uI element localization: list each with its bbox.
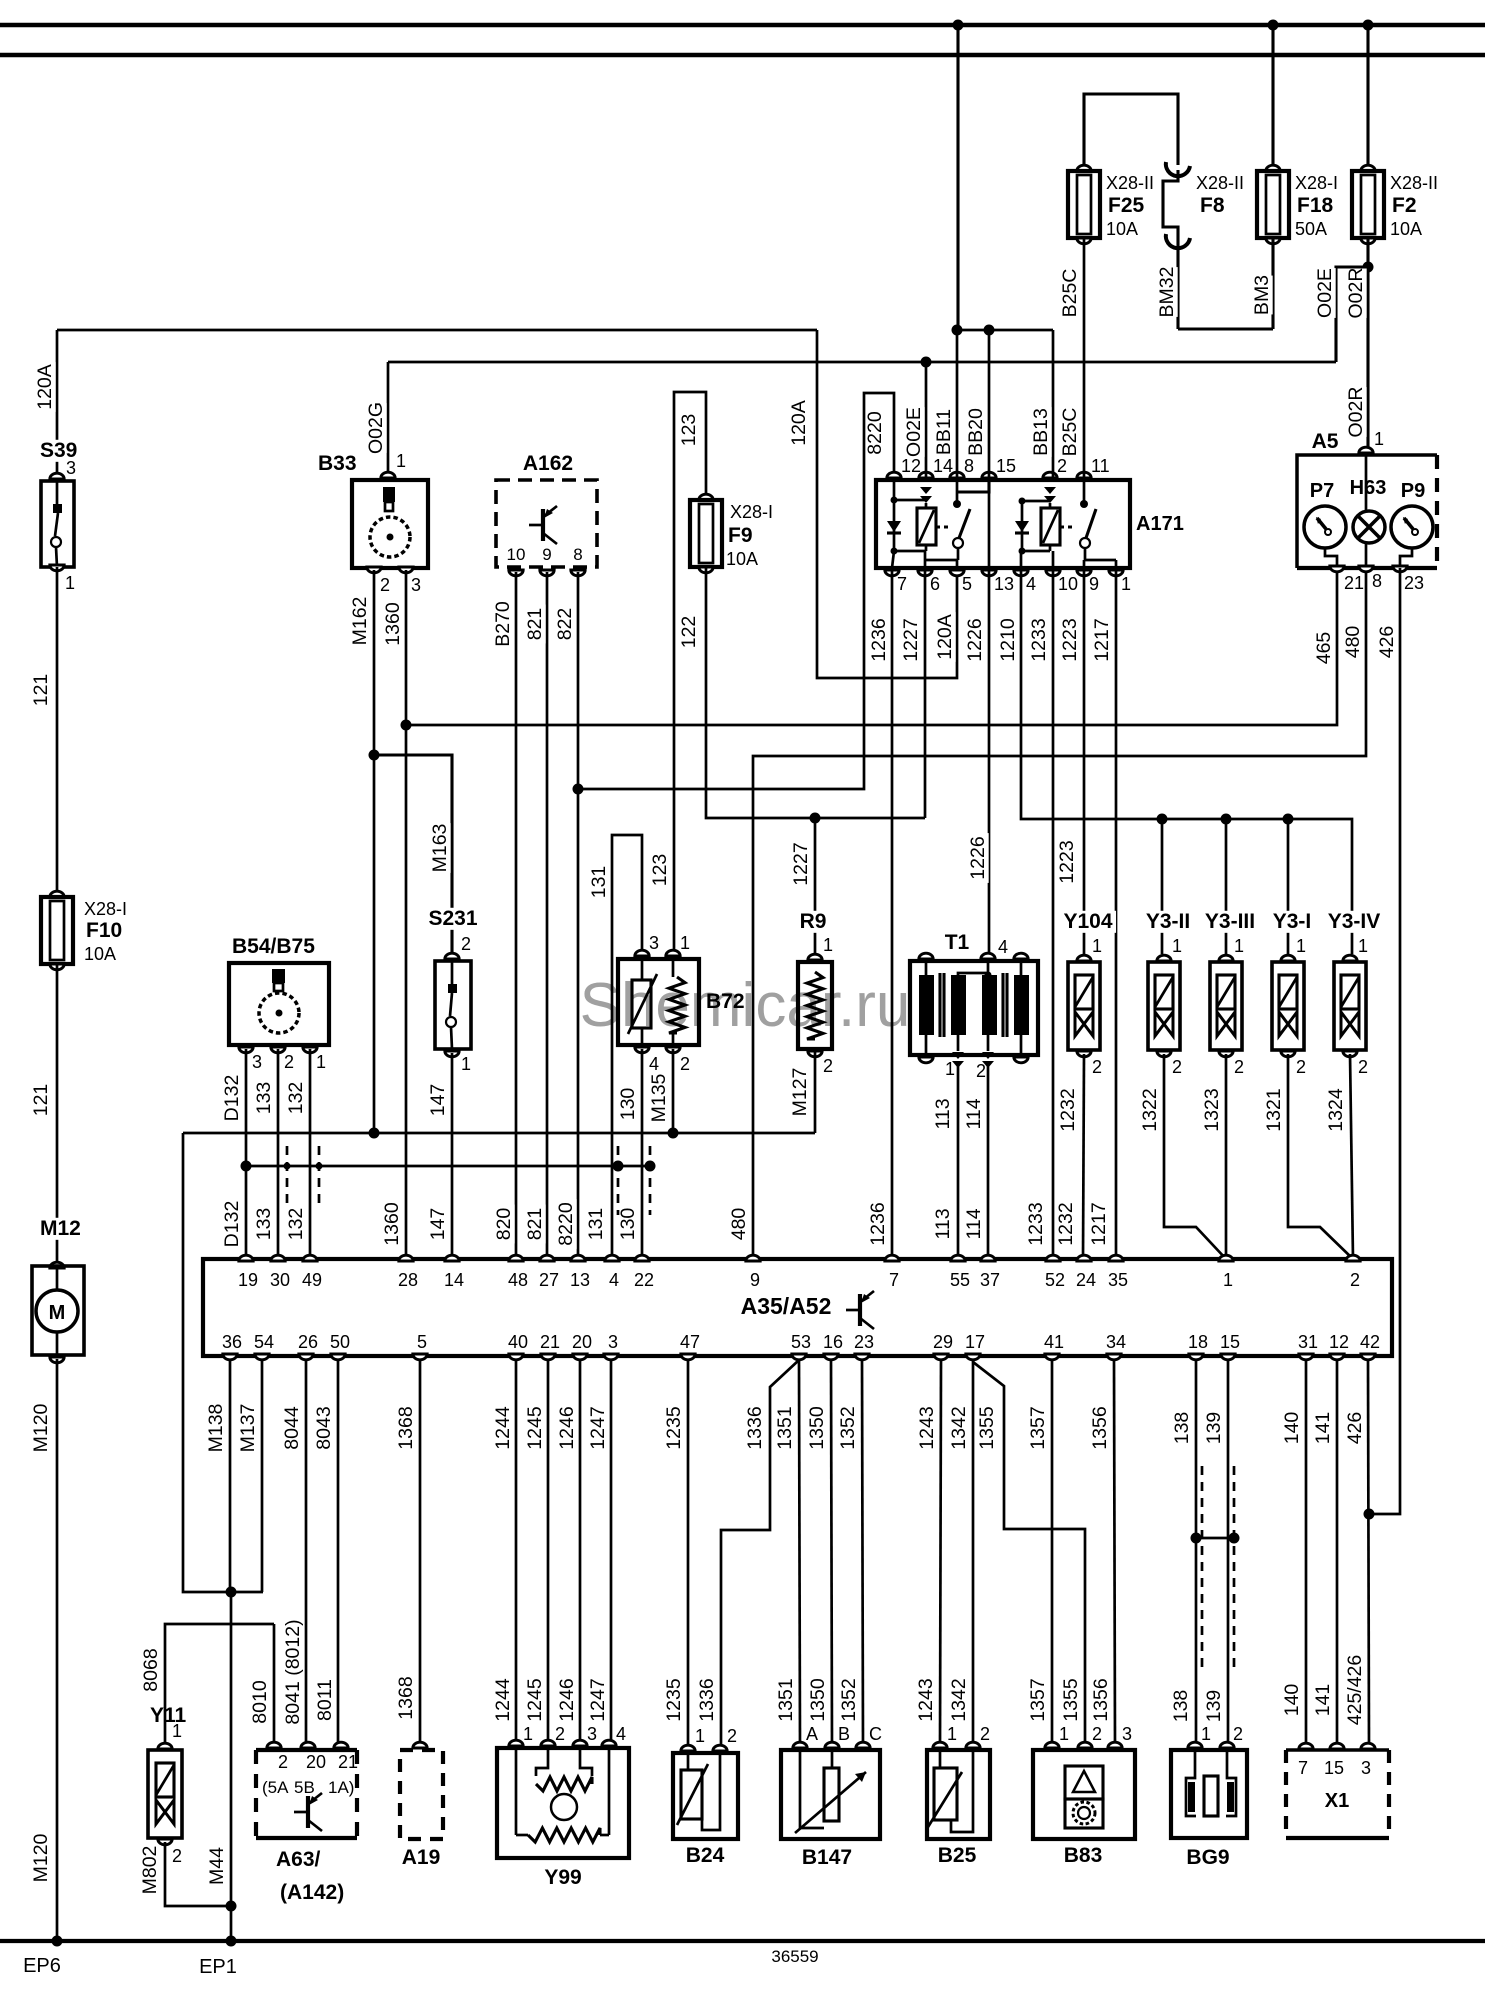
svg-text:140: 140: [1281, 1684, 1303, 1717]
wire O02E branch: [1336, 267, 1368, 362]
ignition coil T1: [942, 932, 972, 954]
wire 1350: [831, 1361, 832, 1746]
wire 130: [641, 1049, 644, 1259]
svg-text:821: 821: [524, 1208, 546, 1241]
svg-text:16: 16: [823, 1332, 843, 1352]
svg-text:50: 50: [330, 1332, 350, 1352]
svg-text:140: 140: [1281, 1412, 1303, 1445]
wire 132: [309, 1049, 312, 1259]
svg-text:1243: 1243: [915, 1678, 937, 1721]
wire from bus to relay feed: [956, 25, 959, 330]
svg-text:Y3-IV: Y3-IV: [1328, 910, 1381, 933]
svg-text:M120: M120: [30, 1403, 52, 1452]
svg-text:B147: B147: [802, 1846, 852, 1869]
wire BM32-BM3 link: [1178, 327, 1273, 330]
svg-text:5B: 5B: [294, 1778, 315, 1797]
svg-text:1356: 1356: [1090, 1678, 1112, 1721]
svg-text:1321: 1321: [1263, 1088, 1285, 1131]
svg-text:8043: 8043: [313, 1406, 335, 1449]
svg-text:141: 141: [1312, 1684, 1334, 1717]
svg-text:1356: 1356: [1089, 1406, 1111, 1449]
svg-text:122: 122: [678, 616, 700, 649]
wire M120: [56, 1359, 59, 1941]
svg-text:132: 132: [285, 1208, 307, 1241]
svg-text:425/426: 425/426: [1344, 1655, 1366, 1726]
svg-text:1210: 1210: [997, 618, 1019, 662]
wire B270/820: [515, 572, 518, 1259]
junction dots on top bus: [953, 20, 964, 31]
svg-text:426: 426: [1376, 626, 1398, 659]
svg-text:114: 114: [963, 1208, 985, 1239]
svg-text:1236: 1236: [868, 618, 890, 661]
wire 133: [277, 1049, 280, 1259]
wire F18 bottom BM3: [1271, 238, 1274, 329]
svg-text:(5A: (5A: [262, 1778, 289, 1797]
svg-text:F18: F18: [1297, 194, 1334, 217]
svg-text:3: 3: [66, 458, 76, 478]
svg-text:26: 26: [298, 1332, 318, 1352]
svg-text:X28-I: X28-I: [84, 899, 127, 919]
switch S231: [425, 908, 481, 930]
svg-text:2: 2: [1234, 1057, 1244, 1077]
svg-text:X28-II: X28-II: [1196, 173, 1244, 193]
valve Y3-I: [1264, 911, 1320, 933]
net 120A horizontal: [57, 329, 817, 332]
wire 121 lower: [56, 964, 59, 1266]
svg-text:147: 147: [427, 1208, 449, 1241]
wire 139: [1227, 1361, 1230, 1745]
svg-text:2: 2: [727, 1726, 737, 1746]
svg-text:141: 141: [1312, 1412, 1334, 1445]
svg-text:M162: M162: [349, 597, 371, 646]
svg-text:2: 2: [461, 934, 471, 954]
bus line 15: [0, 53, 1485, 58]
svg-text:139: 139: [1203, 1690, 1225, 1723]
svg-text:2: 2: [680, 1054, 690, 1074]
svg-text:9: 9: [542, 545, 551, 564]
svg-text:23: 23: [1404, 573, 1424, 593]
svg-text:3: 3: [1122, 1724, 1132, 1744]
svg-text:48: 48: [508, 1270, 528, 1290]
svg-text:B25: B25: [938, 1844, 977, 1867]
svg-text:8220: 8220: [555, 1202, 577, 1246]
svg-text:1: 1: [1172, 936, 1182, 956]
svg-text:1350: 1350: [806, 1406, 828, 1450]
sensor B83: [1033, 1750, 1135, 1839]
svg-text:1: 1: [1358, 936, 1368, 956]
svg-text:10: 10: [507, 545, 526, 564]
wire M44: [230, 1592, 233, 1941]
svg-text:1: 1: [461, 1054, 471, 1074]
svg-text:BM32: BM32: [1156, 267, 1178, 318]
svg-text:8010: 8010: [249, 1680, 271, 1724]
svg-text:1217: 1217: [1088, 1202, 1110, 1245]
svg-text:M44: M44: [206, 1847, 228, 1885]
svg-text:1226: 1226: [964, 618, 986, 661]
svg-text:5: 5: [417, 1332, 427, 1352]
wire 1322: [1164, 1054, 1226, 1259]
fuse F25: [1077, 165, 1091, 171]
wire 1368: [419, 1361, 422, 1745]
wire F8 bottom BM32: [1176, 240, 1179, 329]
svg-text:M12: M12: [40, 1217, 81, 1240]
links 138/139 variant: [1191, 1533, 1202, 1544]
wire 821: [546, 572, 549, 1259]
svg-text:7: 7: [897, 574, 907, 594]
line 1166 variant link: [246, 1165, 650, 1168]
svg-text:(A142): (A142): [280, 1881, 344, 1904]
svg-text:1342: 1342: [948, 1678, 970, 1721]
svg-text:1245: 1245: [524, 1406, 546, 1450]
wire 120A to S39: [56, 330, 59, 477]
svg-text:EP1: EP1: [199, 1956, 237, 1978]
svg-text:1336: 1336: [744, 1406, 766, 1449]
svg-text:2: 2: [284, 1052, 294, 1072]
svg-text:8011: 8011: [314, 1679, 336, 1721]
svg-text:480: 480: [728, 1208, 750, 1241]
wire 822/8220: [577, 572, 580, 1259]
svg-text:1: 1: [1234, 936, 1244, 956]
svg-text:1: 1: [65, 573, 75, 593]
svg-text:1342: 1342: [948, 1406, 970, 1449]
svg-text:4: 4: [998, 937, 1008, 957]
wire 1336 jog: [721, 1360, 799, 1745]
svg-text:113: 113: [932, 1208, 954, 1239]
svg-text:120A: 120A: [934, 614, 956, 660]
svg-text:10A: 10A: [726, 549, 758, 569]
svg-text:9: 9: [1089, 574, 1099, 594]
svg-text:2: 2: [1233, 1724, 1243, 1744]
svg-text:21: 21: [338, 1752, 358, 1772]
svg-text:1: 1: [695, 1726, 705, 1746]
svg-text:1247: 1247: [587, 1406, 609, 1449]
svg-text:Y3-I: Y3-I: [1273, 910, 1312, 933]
wire M127: [814, 1049, 817, 1133]
svg-text:1352: 1352: [838, 1678, 860, 1721]
wire 1357: [1051, 1361, 1054, 1745]
svg-text:8068: 8068: [140, 1648, 162, 1691]
svg-text:Y99: Y99: [544, 1866, 581, 1889]
svg-text:1243: 1243: [916, 1406, 938, 1449]
wire 147: [451, 1053, 454, 1259]
svg-text:123: 123: [649, 854, 671, 887]
svg-text:3: 3: [1361, 1758, 1371, 1778]
svg-text:822: 822: [554, 608, 576, 641]
svg-text:18: 18: [1188, 1332, 1208, 1352]
svg-text:1360: 1360: [382, 602, 404, 646]
svg-text:T1: T1: [945, 931, 970, 954]
wire M138: [229, 1361, 232, 1592]
svg-text:1244: 1244: [492, 1406, 514, 1450]
wire O02R F2 to A5: [1366, 238, 1369, 451]
svg-text:2: 2: [1092, 1724, 1102, 1744]
svg-text:1336: 1336: [696, 1678, 718, 1721]
svg-text:1232: 1232: [1057, 1088, 1079, 1131]
svg-text:1246: 1246: [556, 1678, 578, 1721]
svg-text:1360: 1360: [381, 1202, 403, 1246]
svg-text:1226: 1226: [967, 836, 989, 879]
svg-text:10A: 10A: [1106, 219, 1138, 239]
svg-text:17: 17: [965, 1332, 985, 1352]
wire 141: [1336, 1361, 1339, 1747]
svg-text:21: 21: [1344, 573, 1364, 593]
svg-text:8: 8: [964, 456, 974, 476]
svg-text:113: 113: [932, 1098, 954, 1129]
svg-text:1: 1: [1059, 1724, 1069, 1744]
svg-text:12: 12: [901, 456, 921, 476]
svg-text:B54/B75: B54/B75: [232, 935, 315, 958]
svg-text:2: 2: [1350, 1270, 1360, 1290]
svg-text:9: 9: [750, 1270, 760, 1290]
svg-text:M163: M163: [429, 824, 451, 873]
relay 2 internals: [1044, 487, 1056, 494]
svg-text:2: 2: [980, 1724, 990, 1744]
svg-text:1227: 1227: [790, 842, 812, 885]
svg-text:1: 1: [1296, 936, 1306, 956]
svg-text:1: 1: [1223, 1270, 1233, 1290]
relay top wires: [925, 362, 928, 480]
net O02E horizontal: [388, 361, 1336, 364]
lamp H63: [1347, 478, 1388, 499]
svg-text:B25C: B25C: [1059, 408, 1081, 457]
valve Y3-IV: [1319, 911, 1388, 933]
sensor B25: [927, 1750, 990, 1839]
wire F25 top link: [1084, 94, 1178, 171]
svg-text:14: 14: [444, 1270, 464, 1290]
wire 114: [987, 1066, 990, 1259]
svg-text:X28-II: X28-II: [1390, 173, 1438, 193]
svg-text:53: 53: [791, 1332, 811, 1352]
svg-text:23: 23: [854, 1332, 874, 1352]
svg-text:15: 15: [1324, 1758, 1344, 1778]
wire 113: [957, 1066, 960, 1259]
svg-text:A162: A162: [523, 452, 573, 475]
svg-text:1: 1: [680, 933, 690, 953]
svg-text:5: 5: [962, 574, 972, 594]
svg-text:1352: 1352: [837, 1406, 859, 1449]
svg-text:2: 2: [976, 1061, 986, 1081]
svg-text:1217: 1217: [1091, 618, 1113, 661]
svg-text:M802: M802: [139, 1846, 161, 1895]
svg-text:O02R: O02R: [1345, 387, 1367, 438]
svg-text:114: 114: [963, 1098, 985, 1129]
svg-text:49: 49: [302, 1270, 322, 1290]
svg-text:BB13: BB13: [1030, 408, 1052, 456]
svg-text:132: 132: [285, 1082, 307, 1115]
wire 8043/8011: [337, 1361, 340, 1746]
svg-text:A63/: A63/: [276, 1848, 321, 1871]
svg-text:147: 147: [427, 1084, 449, 1117]
connector A19: [413, 1742, 427, 1748]
wire 138: [1195, 1361, 1198, 1745]
svg-text:2: 2: [1296, 1057, 1306, 1077]
relay 1 internals: [920, 487, 932, 494]
svg-text:BB20: BB20: [965, 408, 987, 456]
wire D132: [245, 1049, 248, 1259]
wire 1352: [862, 1361, 863, 1746]
svg-text:O02R: O02R: [1345, 268, 1367, 319]
svg-text:36559: 36559: [771, 1947, 818, 1966]
svg-text:1: 1: [1201, 1724, 1211, 1744]
wire O02G: [387, 362, 390, 475]
ground jog line M: [183, 1132, 815, 1135]
svg-text:2: 2: [1092, 1057, 1102, 1077]
svg-text:1357: 1357: [1027, 1678, 1049, 1721]
ECU A35/A52: [203, 1259, 1392, 1356]
svg-text:Y104: Y104: [1063, 910, 1112, 933]
svg-text:1244: 1244: [492, 1678, 514, 1722]
svg-text:480: 480: [1342, 626, 1364, 659]
svg-text:BM3: BM3: [1251, 275, 1273, 315]
svg-text:138: 138: [1170, 1690, 1192, 1723]
sensor BG9: [1171, 1750, 1247, 1838]
sensor B147: [781, 1750, 880, 1839]
wire 1342: [972, 1361, 975, 1745]
svg-text:14: 14: [933, 456, 953, 476]
svg-text:F25: F25: [1108, 194, 1145, 217]
svg-text:130: 130: [617, 1208, 639, 1241]
wire 1243: [940, 1361, 941, 1745]
svg-text:2: 2: [278, 1752, 288, 1772]
svg-text:2: 2: [823, 1056, 833, 1076]
wire M135: [672, 1049, 675, 1134]
svg-text:10: 10: [1058, 574, 1078, 594]
svg-text:A: A: [806, 1724, 818, 1744]
fuse F9: [699, 494, 713, 500]
resistor R9: [798, 911, 828, 933]
svg-text:X28-I: X28-I: [730, 502, 773, 522]
idle actuator Y99: [497, 1748, 629, 1858]
svg-text:4: 4: [616, 1724, 626, 1744]
svg-text:F10: F10: [86, 919, 122, 942]
svg-text:1350: 1350: [807, 1678, 829, 1722]
svg-text:S231: S231: [428, 907, 477, 930]
relay bottom wires: [891, 568, 894, 1259]
svg-text:1324: 1324: [1325, 1088, 1347, 1132]
svg-text:1223: 1223: [1059, 618, 1081, 661]
wire M162: [373, 570, 376, 1133]
svg-text:H63: H63: [1350, 477, 1387, 499]
svg-text:138: 138: [1171, 1412, 1193, 1445]
svg-text:31: 31: [1298, 1332, 1318, 1352]
svg-text:133: 133: [253, 1082, 275, 1115]
svg-text:4: 4: [609, 1270, 619, 1290]
valve Y3-II: [1133, 911, 1202, 933]
svg-text:1247: 1247: [587, 1678, 609, 1721]
svg-text:20: 20: [306, 1752, 326, 1772]
svg-text:1245: 1245: [524, 1678, 546, 1722]
svg-text:B: B: [838, 1724, 850, 1744]
svg-text:3: 3: [649, 933, 659, 953]
svg-text:131: 131: [585, 1208, 607, 1241]
valve Y11: [148, 1705, 191, 1727]
svg-text:19: 19: [238, 1270, 258, 1290]
svg-text:41: 41: [1044, 1332, 1064, 1352]
svg-text:1: 1: [823, 935, 833, 955]
svg-text:D132: D132: [221, 1201, 243, 1248]
valve Y3-III: [1189, 911, 1271, 933]
wire 426 from A5: [1369, 568, 1400, 1514]
svg-text:1223: 1223: [1056, 840, 1078, 883]
svg-text:42: 42: [1360, 1332, 1380, 1352]
wire 131 jog: [612, 835, 642, 1259]
svg-text:1: 1: [1092, 936, 1102, 956]
svg-text:1357: 1357: [1027, 1406, 1049, 1449]
svg-text:X28-II: X28-II: [1106, 173, 1154, 193]
svg-text:2: 2: [555, 1724, 565, 1744]
svg-text:2: 2: [172, 1846, 182, 1866]
svg-text:13: 13: [994, 574, 1014, 594]
wire M802: [165, 1842, 231, 1906]
svg-text:821: 821: [524, 608, 546, 641]
svg-text:D132: D132: [221, 1075, 243, 1122]
svg-text:B83: B83: [1064, 1844, 1103, 1867]
wire 1355 jog: [973, 1362, 1085, 1745]
wire M137: [261, 1361, 264, 1592]
svg-text:120A: 120A: [34, 364, 56, 410]
svg-text:F2: F2: [1392, 194, 1417, 217]
wire R9 top 1227: [814, 818, 817, 957]
svg-text:M135: M135: [648, 1073, 670, 1122]
svg-text:BG9: BG9: [1186, 1846, 1229, 1869]
relay module A171: [876, 480, 1130, 568]
wire 122: [706, 567, 925, 818]
svg-text:8: 8: [573, 545, 582, 564]
wire 121: [56, 567, 59, 897]
svg-text:O02E: O02E: [1314, 268, 1336, 318]
svg-text:1: 1: [523, 1724, 533, 1744]
svg-text:1: 1: [396, 451, 406, 471]
svg-text:10A: 10A: [1390, 219, 1422, 239]
wire 120A right leg: [817, 330, 957, 678]
svg-text:3: 3: [411, 575, 421, 595]
svg-text:R9: R9: [800, 910, 827, 933]
svg-text:1: 1: [1121, 574, 1131, 594]
svg-text:O02E: O02E: [903, 407, 925, 457]
wire 123: [674, 392, 706, 949]
svg-text:55: 55: [950, 1270, 970, 1290]
wires 1244-1247: [515, 1361, 518, 1744]
fuse F2: [1361, 165, 1375, 171]
svg-text:37: 37: [980, 1270, 1000, 1290]
svg-text:4: 4: [1026, 574, 1036, 594]
svg-text:54: 54: [254, 1332, 274, 1352]
svg-text:F9: F9: [728, 524, 753, 547]
svg-text:40: 40: [508, 1332, 528, 1352]
svg-text:3: 3: [608, 1332, 618, 1352]
svg-text:P7: P7: [1310, 480, 1334, 502]
svg-text:Y3-III: Y3-III: [1205, 910, 1255, 933]
connector X1: [1286, 1748, 1389, 1752]
svg-text:1323: 1323: [1201, 1088, 1223, 1131]
svg-text:1: 1: [1374, 429, 1384, 449]
svg-text:35: 35: [1108, 1270, 1128, 1290]
svg-text:131: 131: [588, 866, 610, 899]
ECU bottom pins: [223, 1354, 237, 1360]
svg-text:M138: M138: [205, 1404, 227, 1453]
svg-text:8044: 8044: [281, 1406, 303, 1450]
svg-text:50A: 50A: [1295, 219, 1327, 239]
connector F8: [1166, 162, 1190, 176]
wire 1210 to Y3 feed line: [1021, 568, 1352, 954]
svg-text:1368: 1368: [395, 1406, 417, 1449]
svg-text:121: 121: [30, 674, 52, 707]
svg-text:426: 426: [1344, 1412, 1366, 1445]
wire 1235: [687, 1361, 690, 1745]
svg-text:10A: 10A: [84, 944, 116, 964]
svg-text:29: 29: [933, 1332, 953, 1352]
svg-text:1322: 1322: [1139, 1088, 1161, 1131]
